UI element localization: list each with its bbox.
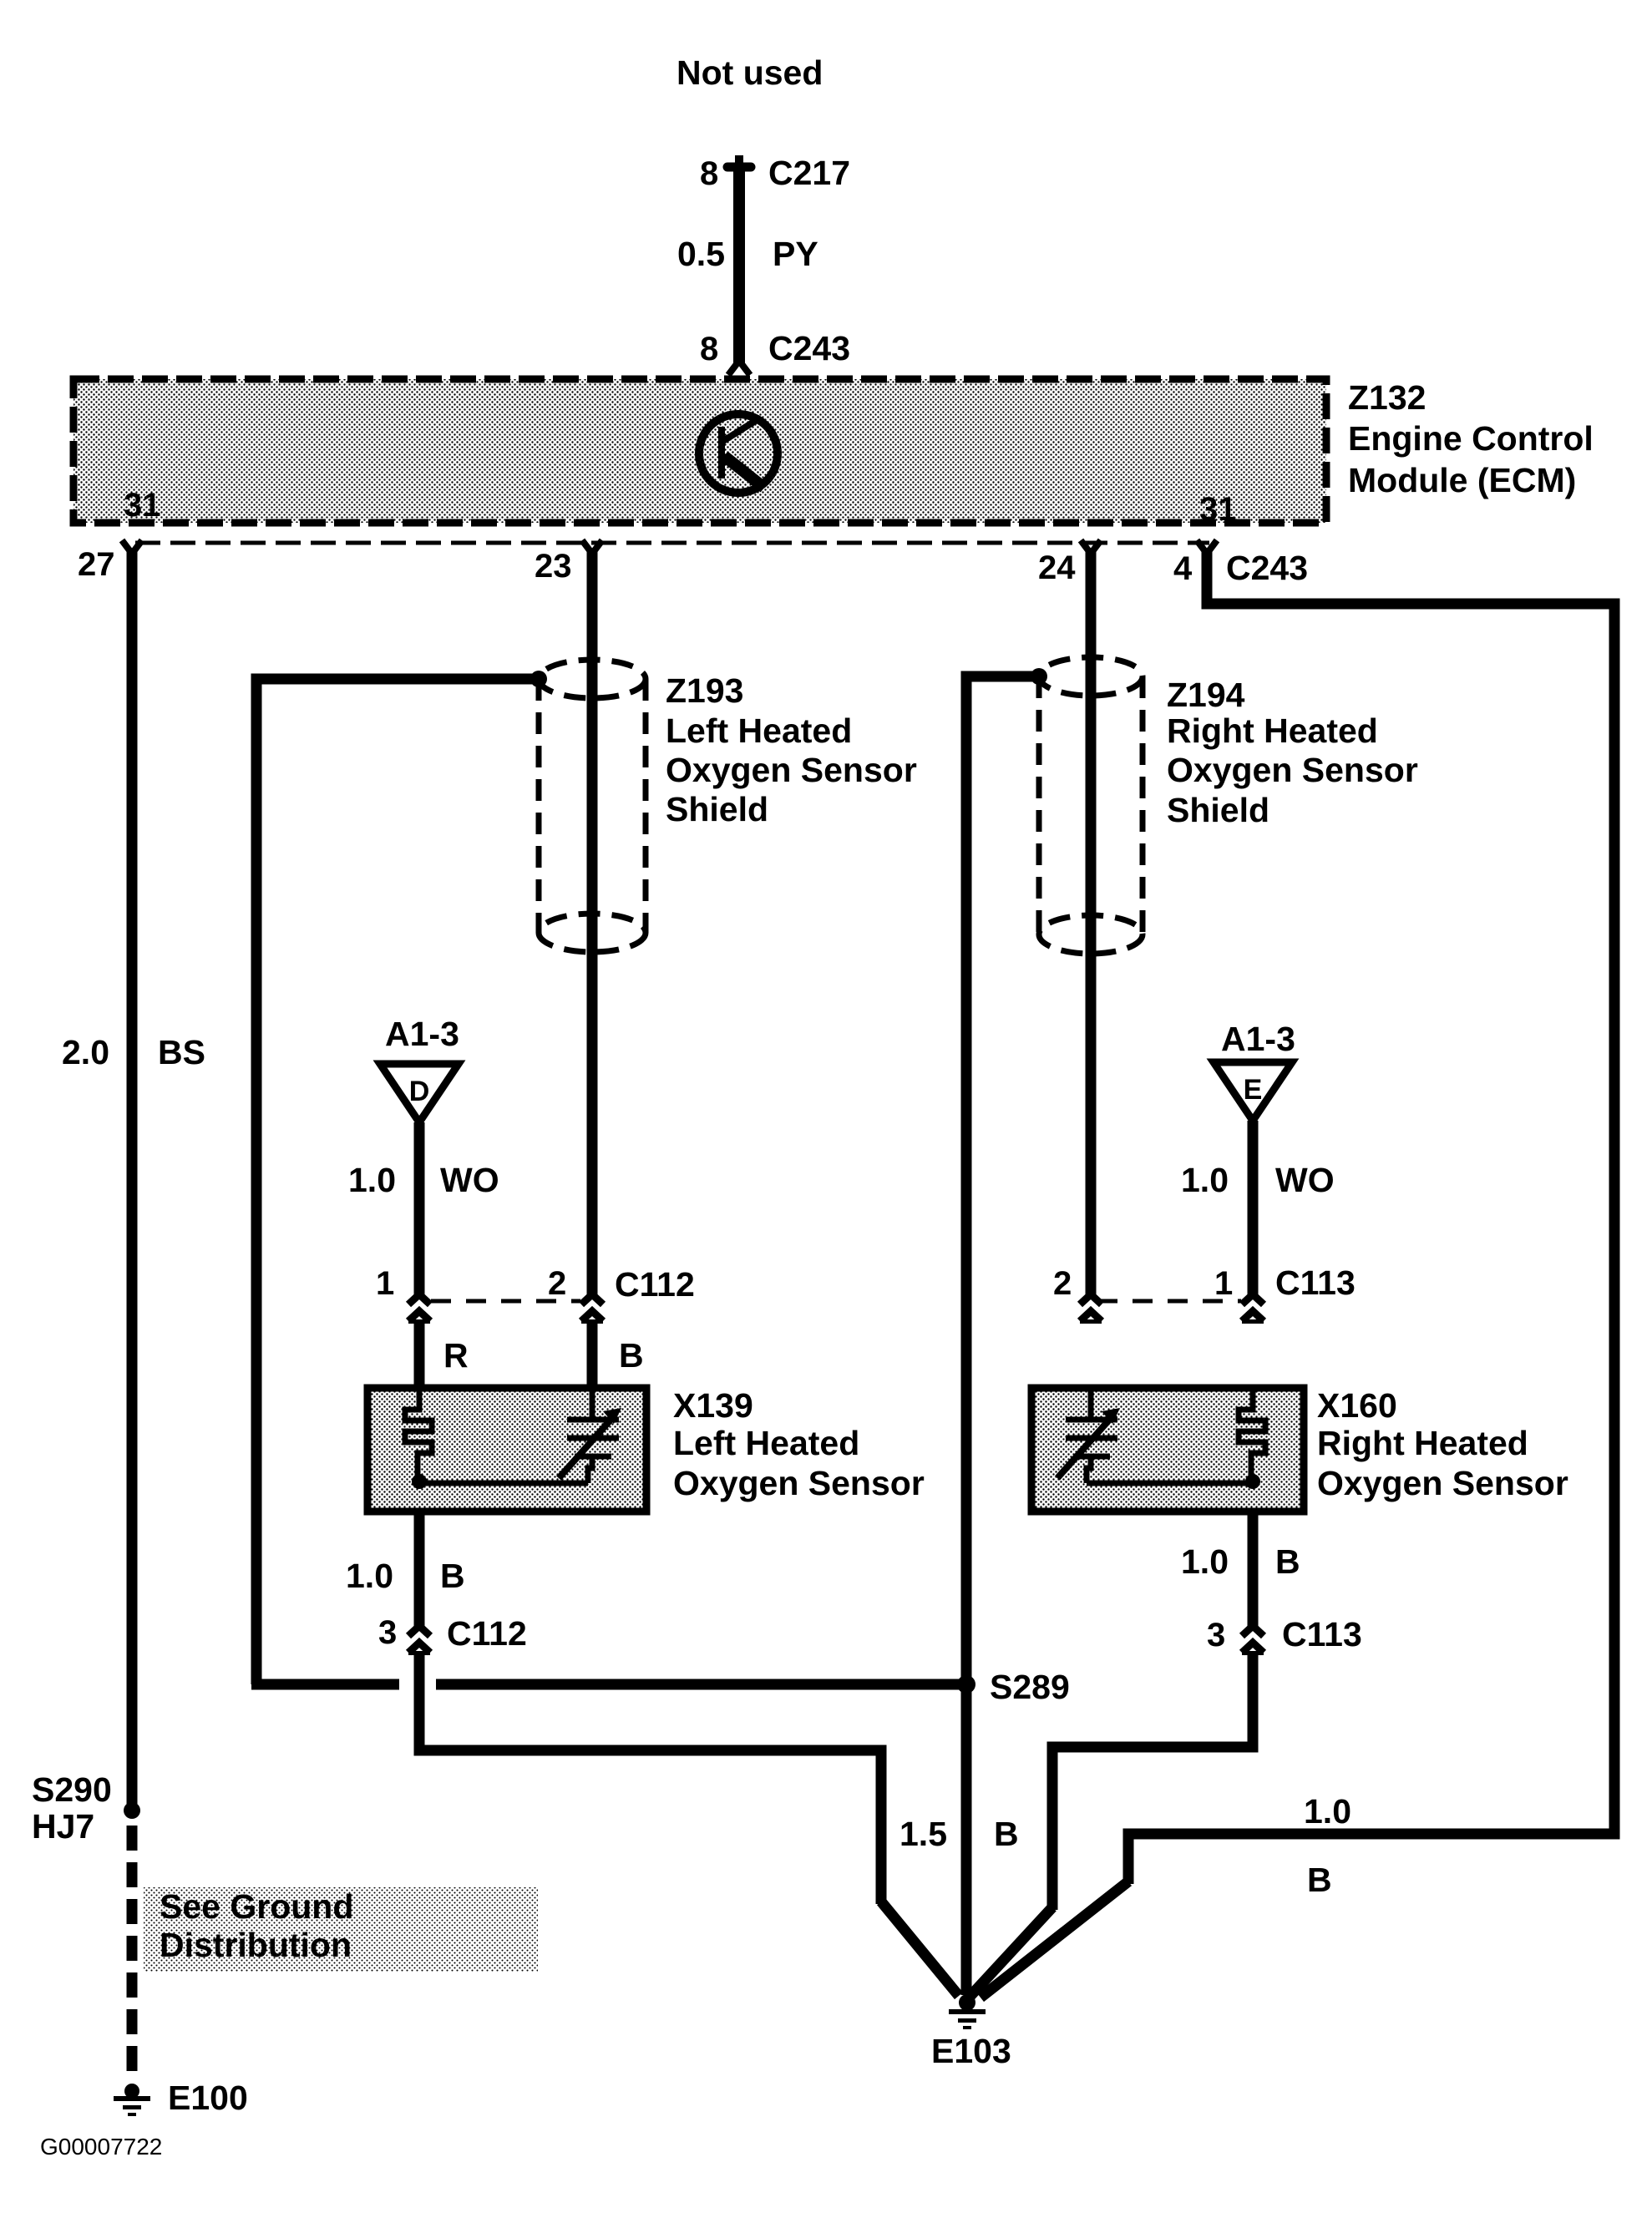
see ground distribution note box — [144, 1887, 538, 1972]
wire E to C113-1 — [1248, 1121, 1259, 1296]
svg-text:Z132: Z132 — [1348, 378, 1426, 417]
svg-text:2: 2 — [1053, 1265, 1072, 1302]
junction dot X160 — [1245, 1474, 1260, 1489]
svg-text:Shield: Shield — [1167, 791, 1269, 829]
ground E103 — [949, 1994, 986, 2029]
shield Z194 cylinder — [1039, 657, 1143, 954]
wire shield Z194 to center rail — [966, 676, 1039, 1995]
junction dot Z194 shield — [1031, 668, 1047, 685]
svg-text:4: 4 — [1173, 550, 1193, 587]
svg-text:C243: C243 — [1226, 549, 1308, 587]
svg-text:B: B — [994, 1815, 1019, 1853]
svg-text:31: 31 — [124, 487, 161, 524]
junction dot X139 — [412, 1474, 427, 1489]
svg-text:8: 8 — [700, 155, 718, 192]
svg-text:See Ground: See Ground — [160, 1887, 353, 1926]
svg-text:Engine Control: Engine Control — [1348, 419, 1594, 458]
diagonal wire middle to E103 — [970, 1907, 1052, 1996]
svg-text:23: 23 — [535, 548, 572, 585]
svg-text:3: 3 — [378, 1614, 397, 1651]
connector triangle E — [1214, 1062, 1292, 1121]
svg-text:B: B — [440, 1557, 465, 1595]
svg-text:E100: E100 — [168, 2079, 248, 2117]
wire X160 to C113-3 — [1248, 1512, 1259, 1628]
wire C217 to C243 (not used) — [733, 167, 745, 364]
svg-text:Shield: Shield — [666, 790, 768, 828]
connector terminal C217 — [727, 155, 751, 167]
wire pin24 down through shield Z194 — [1086, 551, 1097, 1294]
wire sensor to heater junction X160 — [1087, 1481, 1253, 1486]
inline connector C113-1 — [1242, 1294, 1264, 1324]
svg-text:BS: BS — [158, 1033, 205, 1071]
inline connector C113-2 — [1080, 1294, 1102, 1324]
svg-text:Oxygen Sensor: Oxygen Sensor — [1317, 1464, 1568, 1502]
svg-text:C112: C112 — [447, 1614, 527, 1653]
pin fork 27 — [122, 540, 142, 554]
wire C112-2 to X139 — [587, 1319, 598, 1388]
shield Z193 cylinder — [539, 660, 646, 952]
diagonal wire left to E103 — [881, 1902, 959, 1996]
svg-text:1: 1 — [1214, 1265, 1233, 1302]
svg-text:A1-3: A1-3 — [1221, 1020, 1295, 1058]
pin fork 23 — [582, 540, 602, 554]
svg-text:Oxygen Sensor: Oxygen Sensor — [673, 1464, 925, 1502]
sensor element X160 — [1057, 1388, 1120, 1483]
wire shield Z193 to left rail — [256, 679, 539, 1684]
sensor element X139 — [559, 1388, 621, 1483]
svg-text:C217: C217 — [768, 154, 850, 192]
svg-text:X139: X139 — [673, 1386, 753, 1425]
svg-text:HJ7: HJ7 — [32, 1807, 94, 1846]
sensor X160 box — [1031, 1388, 1304, 1512]
svg-text:3: 3 — [1207, 1617, 1225, 1653]
svg-text:Distribution: Distribution — [160, 1926, 352, 1964]
svg-text:C112: C112 — [615, 1265, 695, 1304]
diagonal wire right rail to E103 — [981, 1881, 1128, 1998]
svg-text:Left Heated: Left Heated — [673, 1424, 859, 1462]
connector fork C243 top — [728, 361, 750, 375]
svg-text:1.0: 1.0 — [346, 1557, 393, 1595]
pin fork 24 — [1081, 540, 1101, 554]
sensor X139 box — [367, 1388, 646, 1512]
dashed connector line C113 — [1097, 1299, 1241, 1304]
svg-text:A1-3: A1-3 — [385, 1015, 459, 1053]
wire pin23 down through shield Z193 — [587, 551, 598, 1294]
splice S289 — [957, 1675, 975, 1694]
ECM icon circle — [699, 414, 778, 493]
svg-text:1.0: 1.0 — [348, 1161, 396, 1199]
wire X139 to C112-3 — [414, 1512, 425, 1628]
inline connector C112-2 — [581, 1294, 603, 1324]
svg-text:B: B — [1307, 1861, 1332, 1899]
wire pin4 C243 to right rail — [1128, 551, 1614, 1884]
svg-text:B: B — [1275, 1542, 1300, 1581]
wire pin27 down to S290 — [127, 551, 138, 1812]
pin fork 4 — [1197, 540, 1217, 554]
svg-text:24: 24 — [1038, 549, 1076, 586]
ground E100 — [114, 2084, 150, 2116]
wire C113-3 to ground run — [1052, 1652, 1253, 1910]
svg-text:Right Heated: Right Heated — [1167, 711, 1378, 750]
svg-text:B: B — [619, 1336, 644, 1375]
svg-text:Left Heated: Left Heated — [666, 711, 852, 750]
svg-text:Right Heated: Right Heated — [1317, 1424, 1528, 1462]
wire left rail to S289 segment 1 — [251, 1679, 399, 1690]
svg-text:WO: WO — [440, 1161, 499, 1199]
inline connector C112-1 — [408, 1294, 430, 1324]
svg-text:2: 2 — [548, 1265, 566, 1302]
wire left rail to S289 segment 2 — [436, 1679, 966, 1690]
svg-text:27: 27 — [78, 546, 115, 583]
svg-text:Not used: Not used — [677, 53, 823, 92]
wire D to C112-1 — [414, 1122, 425, 1296]
svg-text:2.0: 2.0 — [62, 1033, 109, 1071]
ECM module Z132 box — [73, 379, 1326, 523]
dashed connector line C112 — [431, 1299, 580, 1304]
svg-text:Module (ECM): Module (ECM) — [1348, 461, 1576, 499]
svg-text:G00007722: G00007722 — [40, 2134, 162, 2160]
svg-text:8: 8 — [700, 331, 718, 367]
svg-text:S289: S289 — [990, 1668, 1070, 1706]
svg-text:Z193: Z193 — [666, 671, 743, 710]
inline connector C112-3 — [408, 1626, 430, 1655]
wire C112-1 to X139 — [414, 1319, 425, 1388]
svg-text:S290: S290 — [32, 1770, 112, 1809]
svg-text:1.0: 1.0 — [1181, 1161, 1229, 1199]
svg-text:D: D — [409, 1076, 430, 1107]
svg-text:C243: C243 — [768, 329, 850, 367]
connector triangle D — [380, 1064, 459, 1122]
svg-text:Z194: Z194 — [1167, 676, 1245, 714]
svg-text:31: 31 — [1199, 491, 1237, 528]
svg-text:1.0: 1.0 — [1181, 1542, 1229, 1581]
dashed wire S290 to E100 — [127, 1826, 138, 2081]
svg-text:1: 1 — [376, 1265, 394, 1302]
svg-text:C113: C113 — [1282, 1615, 1362, 1653]
connector boundary dashed line C243 — [135, 541, 1209, 545]
svg-text:WO: WO — [1275, 1161, 1335, 1199]
wire C112-3 to ground run — [419, 1652, 881, 1904]
heater element X139 — [405, 1388, 432, 1483]
svg-text:C113: C113 — [1275, 1263, 1356, 1302]
svg-text:1.0: 1.0 — [1304, 1792, 1351, 1831]
svg-text:E103: E103 — [931, 2032, 1011, 2070]
svg-text:X160: X160 — [1317, 1386, 1397, 1425]
inline connector C113-3 — [1242, 1626, 1264, 1655]
svg-text:Oxygen Sensor: Oxygen Sensor — [1167, 751, 1418, 789]
junction dot Z193 shield — [530, 671, 547, 687]
wire sensor to heater junction X139 — [419, 1481, 588, 1486]
heater element X160 — [1239, 1388, 1265, 1483]
svg-text:Oxygen Sensor: Oxygen Sensor — [666, 751, 917, 789]
svg-text:PY: PY — [773, 235, 818, 273]
svg-text:R: R — [443, 1336, 469, 1375]
svg-text:E: E — [1244, 1074, 1263, 1106]
splice S290 — [124, 1802, 140, 1819]
svg-text:1.5: 1.5 — [899, 1815, 947, 1853]
svg-text:0.5: 0.5 — [677, 235, 725, 273]
